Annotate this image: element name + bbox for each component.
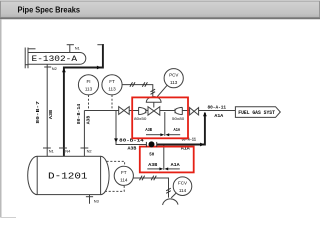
svg-text:A1A: A1A (171, 162, 180, 168)
svg-text:D-1201: D-1201 (48, 171, 88, 181)
drum nozzle N4 flange tick (59, 147, 67, 149)
svg-text:A3B: A3B (148, 162, 157, 168)
instrument FT-114 (114, 166, 133, 185)
svg-text:A1A: A1A (174, 128, 181, 133)
content left edge shadow (0, 20, 2, 218)
svg-text:N4: N4 (65, 148, 71, 153)
svg-text:80-B-14: 80-B-14 (76, 104, 82, 125)
vessel E-1302-A (25, 48, 86, 69)
svg-text:E-1302-A: E-1302-A (32, 55, 78, 64)
svg-text:FT: FT (121, 170, 127, 175)
highlight box upper (132, 97, 188, 138)
nozzle N2 of E-1302-A (44, 66, 51, 68)
flow arrow down on bypass (114, 138, 118, 142)
svg-text:N2: N2 (52, 66, 57, 71)
svg-text:FI: FI (86, 79, 90, 84)
svg-text:N1: N1 (75, 45, 80, 50)
wire upper pipe run (84, 110, 118, 112)
signal break marks (140, 176, 171, 194)
leader PCV-113 to valve (157, 85, 168, 97)
drum nozzle N2 flange tick (81, 147, 89, 149)
title text (18, 5, 81, 15)
block valve V1 (119, 107, 130, 115)
svg-text:A3B: A3B (48, 110, 54, 119)
spec break marker lower (node A3B/A1A) (163, 146, 165, 170)
svg-text:N1: N1 (49, 148, 54, 153)
control valve PCV-113 body (148, 107, 160, 115)
vessel D-1201 (28, 156, 109, 194)
block valve V2 (190, 108, 199, 115)
signal wire FT-114 to FCV-114 (133, 178, 168, 198)
svg-text:FT: FT (109, 79, 115, 84)
instrument PCV-113 (164, 69, 183, 88)
svg-text:80x50: 80x50 (134, 117, 146, 121)
signal break marks (130, 82, 155, 94)
nozzle N3 of D-1201 (89, 195, 91, 204)
svg-text:N2: N2 (87, 148, 92, 153)
wire pipe 80-B-14 riser (drum N2 up to header) (83, 111, 85, 157)
signal wire FT-113 to PCV actuator (122, 85, 153, 97)
svg-text:A3B: A3B (128, 146, 137, 152)
dashed impulse line upper (107, 161, 125, 166)
wire bold feed line from drum N4 up and over (64, 44, 103, 156)
highlight box lower (140, 147, 194, 173)
svg-text:PCV: PCV (169, 73, 178, 78)
spec break ticks and blind (146, 142, 156, 147)
instrument FT-113 (102, 75, 122, 95)
svg-text:114: 114 (179, 188, 187, 193)
dashed impulse line lower (105, 185, 124, 191)
svg-text:Pipe Spec Breaks: Pipe Spec Breaks (18, 5, 81, 15)
drum nozzle N1 flange tick (43, 147, 51, 149)
flow arrow up at junction (203, 112, 207, 116)
nozzle N1 of E-1302-A (67, 45, 74, 53)
svg-text:A3B: A3B (145, 128, 152, 133)
svg-text:113: 113 (108, 87, 116, 92)
wire pipe 80-B-7 riser (vessel to drum N1) (46, 64, 48, 156)
flow arrow right on lower line (200, 143, 204, 147)
wire bypass drop (116, 111, 146, 145)
flow arrow right near corner (97, 66, 101, 70)
svg-text:N3: N3 (94, 198, 99, 203)
instrument FCV-114 (173, 177, 192, 196)
svg-text:80-B-7: 80-B-7 (35, 101, 41, 124)
actuator diaphragm dome (146, 97, 161, 103)
svg-text:113: 113 (85, 87, 93, 92)
FCV-114 actuator dome (cropped) (163, 199, 178, 205)
dashed tap from FT-113 (111, 95, 113, 110)
svg-text:114: 114 (120, 178, 128, 183)
off-page connector FUEL GAS SYST (235, 107, 280, 118)
wire bold line A1A to riser (157, 113, 205, 145)
reducer 80x50 (139, 107, 146, 114)
spec break marker upper (node A3B/A1A) (164, 112, 166, 136)
control valve stem (153, 102, 155, 107)
svg-text:80-A-11: 80-A-11 (208, 104, 227, 110)
svg-text:A3B: A3B (86, 116, 92, 125)
svg-text:50: 50 (149, 151, 154, 157)
reducer 50x80 (175, 107, 182, 114)
svg-text:FUEL GAS SYST: FUEL GAS SYST (238, 110, 275, 116)
svg-text:A1A: A1A (214, 113, 223, 119)
flow arrow up on N4 riser (62, 68, 66, 72)
hook at top of bold line (97, 44, 103, 46)
svg-text:FCV: FCV (178, 181, 187, 186)
leader FCV-114 to valve (171, 193, 176, 198)
svg-text:50x80: 50x80 (172, 117, 184, 121)
instrument FI-113 (78, 75, 98, 95)
dashed tap from FI-113 (88, 95, 90, 110)
svg-text:113: 113 (170, 80, 178, 85)
